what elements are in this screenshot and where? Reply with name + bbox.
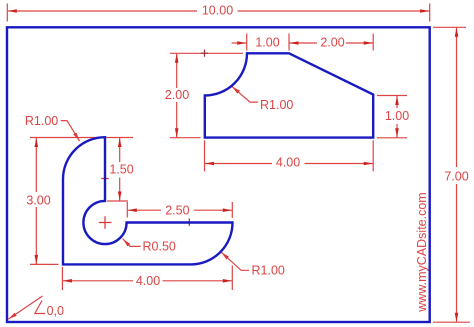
shape 2 dimension 1.50: dim line top segment + arrow: [119, 138, 121, 163]
shape 1 dimension 4.00 bottom: extension line right: [372, 140, 374, 171]
shape 1 outline: [205, 53, 373, 137]
svg-text:2.00: 2.00: [320, 35, 344, 49]
dimension 7.00 right: dim line top segment: [456, 27, 458, 167]
dimension 10.00 top: left arrowhead: [8, 9, 17, 13]
shape 1 arc center mark: [201, 50, 208, 57]
dimension 7.00 right: bottom arrowhead: [455, 313, 459, 322]
shape 1 dimension 2.00 left vertical: dim line top segment + arrow: [176, 53, 178, 88]
shape 1 radius leader R1.00: arrowhead on arc: [232, 86, 240, 93]
svg-text:0,0: 0,0: [47, 304, 64, 318]
svg-text:R1.00: R1.00: [25, 114, 58, 128]
svg-text:R1.00: R1.00: [260, 98, 293, 112]
shape 2 circle center mark: [99, 216, 112, 229]
shape 2 dimension 2.50: extension line left: [126, 202, 128, 218]
dimension 7.00 right: dim line bottom segment: [456, 184, 458, 322]
shape 2 dimension 1.50: extension line bottom: [107, 200, 128, 202]
svg-text:www.myCADsite.com: www.myCADsite.com: [415, 192, 429, 312]
shape 1 dimension 4.00 bottom: extension line left: [204, 140, 206, 171]
shape 2 bottom-right arc center mark: [186, 218, 193, 226]
shape 2 dimension 3.00: dim line top segment + arrow: [35, 138, 37, 193]
shape 2 dimension 4.00: extension line right: [231, 266, 233, 291]
shape 2 dimension 4.00: dim line left segment + arrow: [62, 280, 133, 282]
origin leader 0,0: leader line: [8, 296, 42, 319]
svg-text:2.00: 2.00: [165, 88, 189, 102]
dimension 10.00 top: dim line left segment: [7, 10, 197, 12]
svg-text:R1.00: R1.00: [252, 263, 285, 277]
shape 1 dimension 1.00 top: extension line left: [246, 34, 248, 51]
shape 1 dimension 1.00 right vertical: extension line bottom: [377, 137, 407, 139]
shape 2 dimension 2.50: dim line left segment + arrow: [127, 209, 161, 211]
shape 1 dimension 4.00 bottom: dim line right segment + arrow: [305, 163, 374, 165]
shape 2 dimension 4.00: extension line left: [61, 267, 63, 290]
shape 2 radius leader R0.50: arrowhead on circle: [123, 239, 131, 247]
shape 2 dimension 4.00: dim line right segment + arrow: [163, 280, 233, 282]
shape 2 dimension 3.00: extension line bottom: [30, 263, 59, 265]
shape 2 outline: [63, 137, 233, 264]
shape 1 dimension 1.00 right vertical: dim line top segment + arrow: [396, 96, 398, 109]
shape 2 dimension 3.00: dim line bottom segment + arrow: [35, 207, 37, 264]
svg-text:10.00: 10.00: [202, 4, 233, 18]
origin angle symbol: [35, 301, 46, 314]
shape 1 dimension 1.00 right vertical: dim line bottom segment + arrow: [396, 124, 398, 138]
svg-text:2.50: 2.50: [165, 203, 189, 217]
shape 1 dimension 4.00 bottom: dim line left segment + arrow: [205, 163, 273, 165]
shape 1 dimension 2.00 left vertical: dim line bottom segment + arrow: [176, 102, 178, 138]
dimension 7.00 right: top arrowhead: [455, 28, 459, 37]
dimension 10.00 top: right arrowhead: [420, 9, 429, 13]
svg-text:4.00: 4.00: [136, 274, 160, 288]
shape 1 radius leader R1.00: leader line: [232, 86, 258, 102]
dimension 10.00 top: extension line right: [429, 4, 431, 22]
svg-text:R0.50: R0.50: [143, 239, 176, 253]
shape 2 dimension 2.50: dim line right segment + arrow: [194, 209, 232, 211]
shape 1 dimension 2.00 top: extension line right: [372, 34, 374, 51]
shape 2 radius leader R1.00 bottom-right: leader line: [221, 252, 249, 270]
svg-text:1.00: 1.00: [255, 35, 279, 49]
shape 2 radius leader R1.00 bottom-right: arrowhead on arc: [221, 252, 229, 259]
shape 1 dimension 2.00 left vertical: extension line bottom: [170, 137, 201, 139]
svg-text:3.00: 3.00: [26, 193, 50, 207]
dimension 7.00 right: extension line top: [433, 26, 466, 28]
shape 1 dimension 2.00 left vertical: extension line top: [170, 52, 243, 54]
shape 2 dimension 3.00: extension line top (shared with 1.50): [30, 137, 133, 139]
shape 1 dimension 1.00 right vertical: extension line top: [377, 95, 407, 97]
shape 2 dimension 1.50: dim line bottom segment + arrow: [119, 178, 121, 202]
svg-text:4.00: 4.00: [276, 156, 300, 170]
dimension 7.00 right: extension line bottom: [433, 321, 470, 323]
dimension 10.00 top: dim line right segment: [238, 10, 430, 12]
shape 2 radius leader R1.00 top-left: leader line: [61, 121, 80, 142]
shape 2 dimension 2.50: extension line right: [231, 202, 233, 218]
svg-text:1.50: 1.50: [109, 163, 133, 177]
shape 2 radius leader R0.50: leader line: [123, 239, 141, 247]
origin leader 0,0: arrowhead at border corner: [8, 313, 16, 320]
dimension 10.00 top: extension line left: [6, 4, 8, 22]
shape 1 dimension 1.00 top: outside arrow line left: [232, 42, 247, 44]
shape 2 big arc center mark: [101, 175, 108, 182]
shape 2 radius leader R1.00 top-left: arrowhead on arc: [73, 133, 79, 142]
shape 1 dimension 2.00 top: dim line right segment + arrow: [346, 42, 373, 44]
shape 1 dimension 2.00 top: extension line left: [288, 34, 290, 51]
svg-text:7.00: 7.00: [444, 170, 468, 184]
shape 1 dimension 2.00 top: dim line left segment + arrow: [289, 42, 317, 44]
svg-text:1.00: 1.00: [385, 109, 409, 123]
